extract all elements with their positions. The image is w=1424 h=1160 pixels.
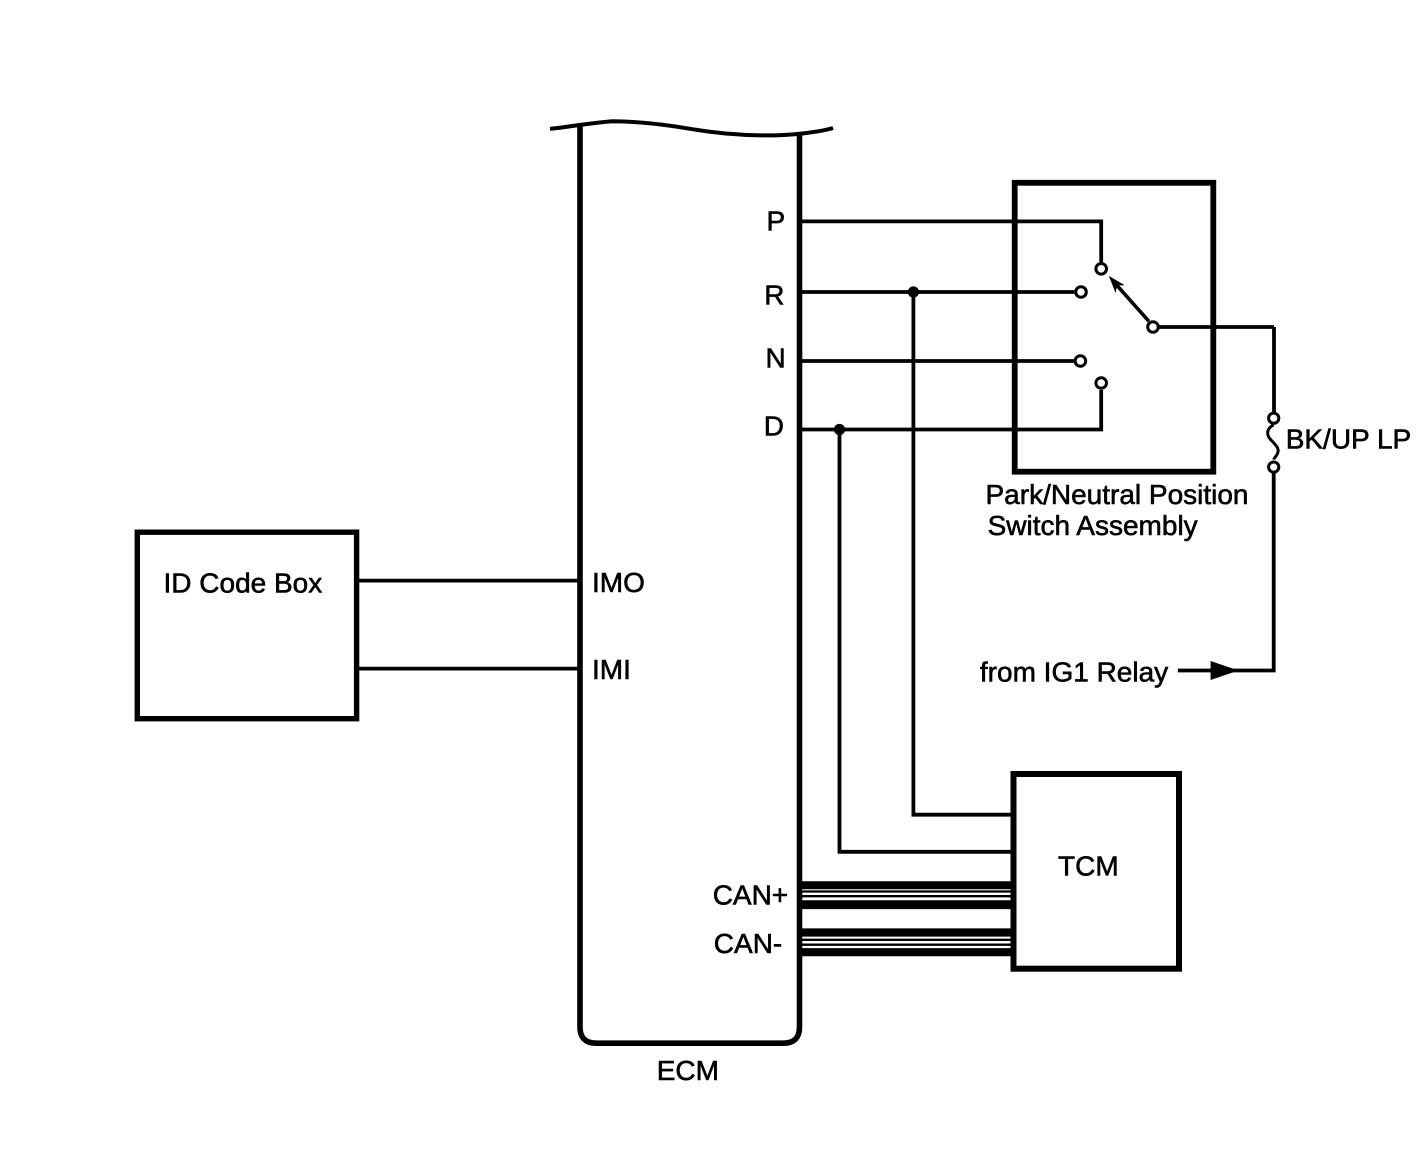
lamp BK/UP LP filament squiggle bbox=[1268, 425, 1279, 460]
TCM module box bbox=[1014, 774, 1180, 969]
svg-text:Park/Neutral Position: Park/Neutral Position bbox=[986, 479, 1249, 510]
svg-text:BK/UP LP: BK/UP LP bbox=[1286, 424, 1412, 455]
svg-text:P: P bbox=[767, 205, 786, 236]
wire bus CAN+ line 4 (thick) bbox=[802, 900, 1014, 909]
switch blade wiper shaft bbox=[1117, 285, 1149, 321]
wire bus CAN- line 1 (thick) bbox=[802, 928, 1014, 936]
wire D: ECM pin D to switch D contact bbox=[802, 390, 1101, 430]
wire from D junction down and right to TCM bbox=[840, 430, 1012, 852]
wire N: ECM pin N to switch N contact bbox=[802, 359, 1074, 363]
arrowhead on IG1 relay feed wire bbox=[1211, 661, 1239, 680]
wire bus CAN+ line 1 (thick) bbox=[802, 881, 1014, 889]
wire IMI: ID Code Box to ECM bbox=[359, 667, 578, 671]
lamp BK/UP LP top terminal circle bbox=[1269, 413, 1279, 423]
wire IMO: ID Code Box to ECM bbox=[359, 579, 578, 583]
Park/Neutral Position Switch Assembly box bbox=[1015, 183, 1214, 472]
ID Code Box component box bbox=[137, 532, 356, 719]
wire bus CAN+ line 2 (thin) bbox=[802, 890, 1014, 892]
lamp BK/UP LP bottom terminal circle bbox=[1269, 462, 1279, 472]
ECM module box torn wavy top edge bbox=[550, 121, 833, 135]
junction dot on wire D bbox=[834, 424, 845, 435]
switch contact P bbox=[1096, 264, 1107, 275]
wire bus CAN+ line 3 (thin) bbox=[802, 895, 1014, 897]
wire R: ECM pin R to switch R contact bbox=[802, 290, 1074, 294]
svg-text:CAN-: CAN- bbox=[714, 928, 782, 959]
wire from switch common contact to backup lamp bbox=[1160, 327, 1275, 412]
wire from R junction down and right to TCM bbox=[913, 292, 1011, 815]
switch common contact bbox=[1148, 322, 1159, 333]
svg-text:IMO: IMO bbox=[592, 567, 645, 598]
svg-text:Switch Assembly: Switch Assembly bbox=[988, 510, 1198, 541]
ECM module box body outline bbox=[580, 124, 800, 1044]
switch blade arrowhead pointing at P contact bbox=[1109, 276, 1125, 293]
svg-text:TCM: TCM bbox=[1058, 851, 1119, 882]
wire bus CAN- line 2 (thin) bbox=[802, 939, 1014, 941]
wire bus CAN- line 4 (thick) bbox=[802, 948, 1014, 956]
svg-text:D: D bbox=[764, 411, 784, 442]
switch contact N bbox=[1075, 356, 1086, 367]
svg-text:from IG1 Relay: from IG1 Relay bbox=[980, 657, 1168, 688]
wire P: ECM pin P to switch P contact bbox=[802, 221, 1101, 262]
svg-text:N: N bbox=[766, 342, 786, 373]
switch contact R bbox=[1076, 287, 1087, 298]
svg-text:ECM: ECM bbox=[657, 1055, 719, 1086]
junction dot on wire R bbox=[908, 286, 919, 297]
svg-text:ID Code Box: ID Code Box bbox=[164, 568, 323, 599]
svg-text:R: R bbox=[764, 280, 784, 311]
wire bus CAN- line 3 (thin) bbox=[802, 944, 1014, 946]
svg-text:CAN+: CAN+ bbox=[713, 880, 788, 911]
switch contact D bbox=[1096, 378, 1107, 389]
wire from lamp down to IG1 relay feed corner bbox=[1178, 473, 1276, 671]
svg-text:IMI: IMI bbox=[592, 654, 631, 685]
